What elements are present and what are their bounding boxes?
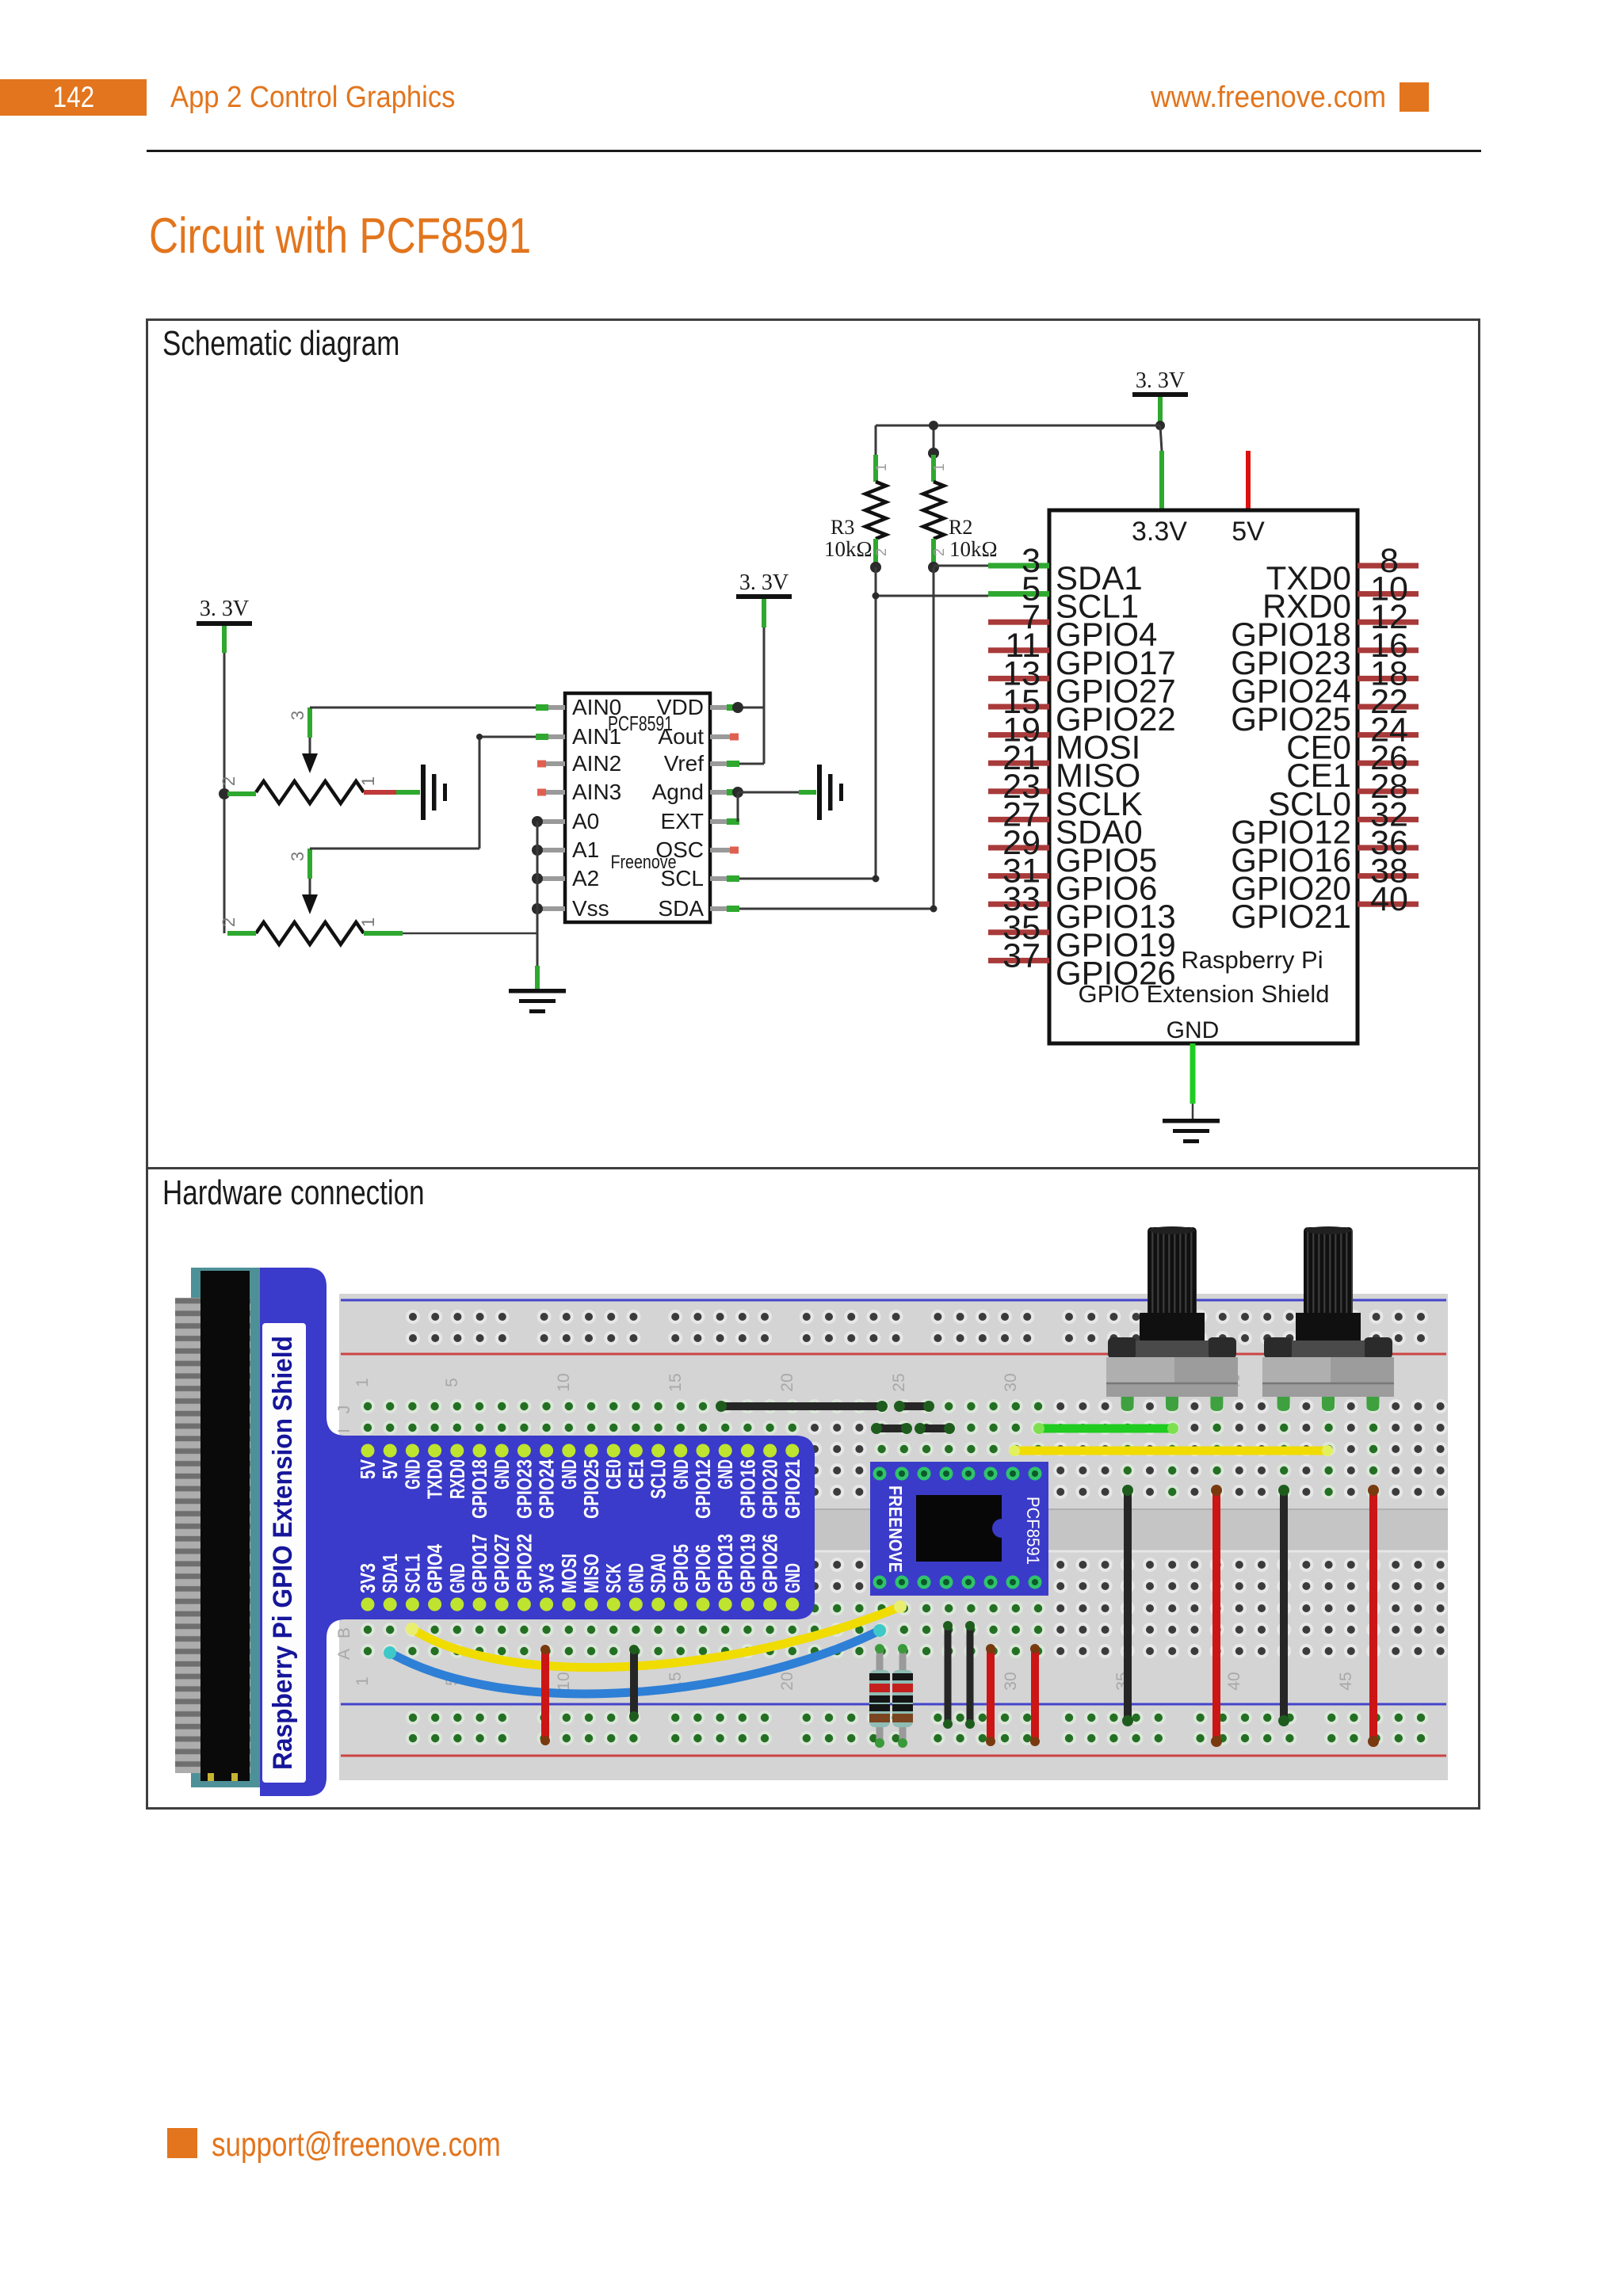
svg-text:1: 1 xyxy=(931,463,947,471)
svg-text:GPIO18: GPIO18 xyxy=(468,1459,491,1519)
svg-text:SCL1: SCL1 xyxy=(400,1554,424,1593)
svg-text:3. 3V: 3. 3V xyxy=(739,570,789,595)
svg-text:5V: 5V xyxy=(1232,517,1265,547)
svg-text:SCL0: SCL0 xyxy=(647,1459,670,1499)
svg-text:A2: A2 xyxy=(572,866,599,891)
svg-text:Agnd: Agnd xyxy=(652,780,704,804)
svg-text:GPIO22: GPIO22 xyxy=(512,1534,536,1593)
svg-text:RXD0: RXD0 xyxy=(445,1459,469,1499)
svg-text:GND: GND xyxy=(1167,1017,1220,1043)
svg-text:TXD0: TXD0 xyxy=(423,1459,447,1499)
svg-text:GPIO Extension Shield: GPIO Extension Shield xyxy=(1078,980,1329,1008)
svg-text:MOSI: MOSI xyxy=(557,1554,581,1593)
svg-text:GND: GND xyxy=(557,1459,581,1489)
svg-text:GND: GND xyxy=(669,1459,693,1489)
svg-text:1: 1 xyxy=(358,776,378,786)
svg-text:GPIO21: GPIO21 xyxy=(1231,898,1351,935)
svg-text:1: 1 xyxy=(353,1378,372,1387)
svg-text:CE1: CE1 xyxy=(624,1459,647,1489)
svg-text:Vss: Vss xyxy=(572,896,609,921)
svg-text:20: 20 xyxy=(778,1373,796,1391)
svg-text:40: 40 xyxy=(1225,1672,1243,1690)
svg-text:GPIO16: GPIO16 xyxy=(735,1459,759,1519)
svg-text:I: I xyxy=(335,1428,353,1433)
svg-text:GPIO19: GPIO19 xyxy=(735,1534,759,1593)
svg-text:SDA0: SDA0 xyxy=(647,1554,670,1593)
svg-text:1: 1 xyxy=(353,1676,372,1686)
svg-text:GPIO12: GPIO12 xyxy=(691,1459,715,1519)
svg-text:GND: GND xyxy=(781,1563,804,1593)
svg-text:3. 3V: 3. 3V xyxy=(1136,368,1185,393)
svg-text:SCK: SCK xyxy=(601,1563,625,1593)
svg-text:2: 2 xyxy=(873,548,889,556)
svg-text:10kΩ: 10kΩ xyxy=(824,537,873,561)
svg-text:GND: GND xyxy=(400,1459,424,1489)
svg-text:GND: GND xyxy=(713,1459,737,1489)
svg-text:5: 5 xyxy=(443,1378,461,1387)
svg-text:MISO: MISO xyxy=(579,1554,603,1593)
svg-text:GPIO13: GPIO13 xyxy=(713,1534,737,1593)
svg-text:GPIO20: GPIO20 xyxy=(758,1459,782,1519)
svg-text:3V3: 3V3 xyxy=(356,1563,380,1593)
svg-text:GPIO27: GPIO27 xyxy=(490,1534,514,1593)
svg-text:SCL: SCL xyxy=(661,866,704,891)
svg-text:GND: GND xyxy=(445,1563,469,1593)
svg-text:A1: A1 xyxy=(572,837,599,862)
svg-text:GND: GND xyxy=(490,1459,514,1489)
svg-text:3. 3V: 3. 3V xyxy=(200,597,249,621)
svg-text:VDD: VDD xyxy=(657,695,704,719)
svg-text:GPIO5: GPIO5 xyxy=(669,1544,693,1593)
svg-text:30: 30 xyxy=(1002,1373,1020,1391)
svg-text:OSC: OSC xyxy=(655,837,704,862)
svg-text:PCF8591: PCF8591 xyxy=(1023,1497,1043,1565)
svg-text:45: 45 xyxy=(1337,1672,1355,1690)
svg-text:FREENOVE: FREENOVE xyxy=(885,1486,906,1573)
svg-text:EXT: EXT xyxy=(661,809,704,833)
svg-text:GPIO23: GPIO23 xyxy=(512,1459,536,1519)
svg-text:GPIO17: GPIO17 xyxy=(468,1534,491,1593)
svg-text:40: 40 xyxy=(1370,880,1408,918)
svg-text:AIN1: AIN1 xyxy=(572,724,621,749)
svg-text:Aout: Aout xyxy=(658,724,704,749)
svg-text:10: 10 xyxy=(555,1672,573,1690)
svg-text:AIN3: AIN3 xyxy=(572,780,621,804)
svg-text:B: B xyxy=(335,1627,353,1638)
svg-text:25: 25 xyxy=(890,1373,908,1391)
svg-text:3: 3 xyxy=(288,711,307,720)
svg-text:A: A xyxy=(335,1649,353,1660)
svg-text:GPIO4: GPIO4 xyxy=(423,1544,447,1593)
svg-text:A0: A0 xyxy=(572,809,599,833)
svg-text:3: 3 xyxy=(288,852,307,861)
svg-text:10: 10 xyxy=(555,1373,573,1391)
svg-text:2: 2 xyxy=(219,917,239,927)
svg-text:R2: R2 xyxy=(949,516,972,539)
svg-text:3.3V: 3.3V xyxy=(1132,517,1187,547)
svg-text:15: 15 xyxy=(666,1373,685,1391)
svg-text:5V: 5V xyxy=(378,1459,402,1479)
svg-text:5V: 5V xyxy=(356,1459,380,1479)
svg-text:GPIO24: GPIO24 xyxy=(535,1459,559,1519)
svg-text:AIN0: AIN0 xyxy=(572,695,621,719)
svg-text:1: 1 xyxy=(358,917,378,927)
svg-text:Raspberry Pi: Raspberry Pi xyxy=(1181,946,1323,974)
svg-text:30: 30 xyxy=(1002,1672,1020,1690)
svg-text:20: 20 xyxy=(778,1672,796,1690)
svg-text:GPIO21: GPIO21 xyxy=(781,1459,804,1519)
svg-text:SDA1: SDA1 xyxy=(378,1554,402,1593)
svg-text:AIN2: AIN2 xyxy=(572,751,621,776)
svg-text:3V3: 3V3 xyxy=(535,1563,559,1593)
svg-text:J: J xyxy=(335,1405,353,1414)
svg-text:2: 2 xyxy=(219,776,239,786)
svg-text:GPIO25: GPIO25 xyxy=(579,1459,603,1519)
svg-text:2: 2 xyxy=(931,548,947,556)
svg-text:1: 1 xyxy=(873,463,889,471)
svg-text:Raspberry Pi GPIO Extension Sh: Raspberry Pi GPIO Extension Shield xyxy=(268,1336,298,1770)
svg-text:GND: GND xyxy=(624,1563,647,1593)
svg-text:Vref: Vref xyxy=(664,751,705,776)
svg-text:GPIO26: GPIO26 xyxy=(758,1534,782,1593)
svg-text:SDA: SDA xyxy=(658,896,704,921)
svg-text:CE0: CE0 xyxy=(601,1459,625,1489)
svg-text:R3: R3 xyxy=(831,516,854,539)
svg-text:GPIO6: GPIO6 xyxy=(691,1544,715,1593)
svg-text:37: 37 xyxy=(1002,936,1041,974)
svg-text:10kΩ: 10kΩ xyxy=(949,537,998,561)
